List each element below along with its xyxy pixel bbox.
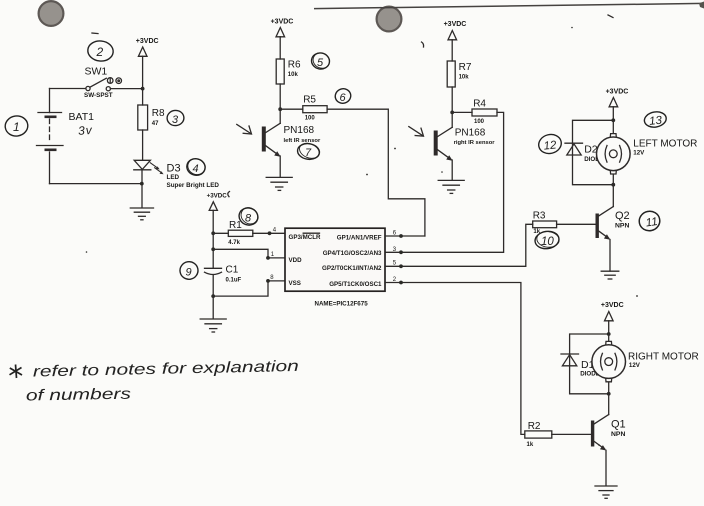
svg-text:+3VDC: +3VDC [207,193,228,200]
wire LED to ground node [140,170,144,208]
svg-text:11: 11 [645,216,659,230]
wire R5 to PIC pin 6 [327,109,425,236]
phototransistor PN168 right [434,127,496,160]
+3VDC power symbol (right motor rail) [601,302,624,334]
phototransistor PN168 left [262,123,321,156]
svg-text:2: 2 [96,45,104,59]
ground under right sensor [438,180,464,193]
svg-text:4.7k: 4.7k [228,240,240,246]
wire C1 to ground [212,275,214,319]
wire battery bottom to LED node [50,183,142,185]
wire right motor / D1 loop [570,332,611,396]
svg-text:R4: R4 [473,98,486,109]
svg-text:R2: R2 [528,421,541,432]
svg-text:NPN: NPN [615,222,629,229]
svg-text:1: 1 [13,120,20,134]
svg-text:Q1: Q1 [611,419,626,431]
svg-text:SW-SPST: SW-SPST [84,92,113,99]
svg-text:R7: R7 [459,62,472,73]
svg-text:R3: R3 [533,211,546,222]
svg-text:+3VDC: +3VDC [444,21,467,28]
+3VDC power symbol (PIC rail) [207,193,228,268]
svg-text:3 v: 3 v [78,123,94,138]
svg-text:PN168: PN168 [284,125,315,136]
resistor R1 [213,220,253,246]
wire right emitter to ground [451,160,453,180]
svg-text:3: 3 [393,246,397,253]
circled number 5 [310,50,332,71]
svg-text:0.1uF: 0.1uF [226,278,242,284]
hole punch mark center [377,7,402,32]
svg-text:GP5/T1CK0/OSC1: GP5/T1CK0/OSC1 [329,281,382,288]
svg-text:PN168: PN168 [455,128,486,139]
svg-text:5: 5 [317,57,324,69]
pin 3 stub [393,246,403,254]
+3VDC power symbol (R8 rail) [136,38,159,105]
svg-text:10k: 10k [459,75,470,81]
IC U1 PIC12F675 [285,228,385,308]
capacitor C1 [205,264,242,283]
svg-text:C1: C1 [226,264,239,275]
svg-text:7: 7 [305,147,312,159]
circled number 10 [534,230,560,250]
handwritten asterisk [10,365,23,379]
svg-text:VSS: VSS [289,280,301,287]
handwritten note line 1 [33,358,299,381]
svg-text:D2: D2 [584,144,598,156]
svg-text:refer to notes for explanation: refer to notes for explanation [33,358,299,381]
svg-text:4: 4 [193,163,199,175]
light arrow into left sensor [237,124,252,134]
svg-text:12: 12 [543,139,558,152]
circled number 6 [334,87,353,105]
LED D3 [134,160,220,189]
svg-text:GP1/AN1/VREF: GP1/AN1/VREF [337,235,382,242]
circled number 13 [643,110,667,129]
wire R1 to pin 4 [253,228,285,236]
svg-text:BAT1: BAT1 [69,111,95,123]
svg-text:GP2/T0CK1/INT/AN2: GP2/T0CK1/INT/AN2 [322,265,382,272]
svg-text:left IR sensor: left IR sensor [284,138,321,144]
wire VDD pin 1 [213,249,285,259]
wire VSS pin 8 to rail [211,275,285,298]
wire R7 to node and collector [450,87,454,127]
wire left emitter to ground [279,156,281,177]
svg-text:RIGHT MOTOR: RIGHT MOTOR [628,351,699,362]
svg-text:+3VDC: +3VDC [136,38,159,45]
svg-text:10k: 10k [288,72,299,78]
switch SW1 [84,66,121,100]
svg-text:+3VDC: +3VDC [601,302,624,309]
svg-text:13: 13 [649,115,664,128]
resistor R8 [138,105,165,130]
wire switch to +3VDC rail [110,87,144,91]
wire R4 to PIC pin 3 [385,112,504,252]
resistor R6 [276,59,301,84]
svg-text:VDD: VDD [289,257,303,264]
stray pen marks [86,15,638,446]
svg-text:R8: R8 [152,108,165,119]
ground under D3 [130,208,153,220]
handwritten value 3v [78,123,94,138]
+3VDC power symbol (left motor rail) [606,89,629,121]
svg-text:+3VDC: +3VDC [606,89,629,96]
wire motor to Q2 collector [612,185,614,207]
circled number 11 [637,209,661,232]
svg-text:12V: 12V [633,150,645,157]
pin 6 stub [385,230,425,238]
svg-text:D3: D3 [167,163,181,175]
svg-text:LEFT MOTOR: LEFT MOTOR [633,139,697,150]
svg-text:100: 100 [305,116,316,122]
svg-text:3: 3 [172,114,179,126]
light arrow into right sensor [409,127,424,137]
wire battery top to switch [50,88,86,90]
+3VDC power symbol (left sensor rail) [271,19,294,60]
circled number 9 [179,260,200,280]
page edge line top right [314,2,704,9]
svg-text:of numbers: of numbers [26,386,132,405]
ground under Q1 [595,486,617,498]
svg-text:right IR sensor: right IR sensor [454,140,496,146]
circled number 12 [537,132,564,156]
resistor R4 [452,98,497,125]
transistor Q2 [596,207,630,272]
circled number 8 [237,204,261,227]
svg-text:6: 6 [340,92,347,104]
circled number 1 [4,115,29,138]
svg-text:Super Bright LED: Super Bright LED [167,182,220,189]
svg-text:SW1: SW1 [85,66,108,78]
svg-text:GP4/T1G/OSC2/AN3: GP4/T1G/OSC2/AN3 [323,250,382,257]
transistor Q1 [591,415,626,486]
circled number 2 [87,40,114,63]
svg-text:+3VDC: +3VDC [271,19,294,26]
resistor R3 [533,211,596,236]
svg-text:9: 9 [186,267,192,279]
resistor R2 [525,421,591,448]
hole punch mark left [39,1,64,26]
diode D1 [561,354,600,378]
svg-text:12V: 12V [629,362,641,369]
circled number 7 [297,140,322,161]
svg-text:Q2: Q2 [615,210,630,222]
svg-text:8: 8 [270,275,274,281]
svg-text:10: 10 [541,236,554,248]
ground under Q2 [601,271,619,279]
svg-text:LED: LED [167,174,180,181]
resistor R5 [280,94,327,121]
circled number 4 [185,156,207,177]
wire left motor / D2 loop [573,118,616,186]
svg-text:1k: 1k [527,442,534,448]
svg-text:NPN: NPN [611,431,625,438]
wire R6 to node and collector [278,84,282,123]
ground under C1 [200,319,226,332]
motor M2 LEFT MOTOR [597,120,698,184]
resistor R7 [447,61,472,87]
svg-text:R5: R5 [303,94,316,105]
svg-text:1: 1 [271,252,275,258]
pin 2 stub and wire to R2 [385,277,525,435]
+3VDC power symbol (right sensor rail) [444,21,467,61]
motor M1 RIGHT MOTOR [592,334,699,394]
pin 5 stub and wire to R3 [385,224,533,268]
svg-text:8: 8 [245,212,252,224]
battery BAT1 [37,89,95,184]
svg-text:R6: R6 [288,60,301,71]
diode D2 [565,143,604,163]
wire motor to Q1 collector [608,394,610,415]
handwritten note line 2 [26,386,132,405]
svg-text:R1: R1 [229,220,242,231]
svg-text:NAME=PIC12F675: NAME=PIC12F675 [315,301,369,308]
svg-text:100: 100 [474,119,485,125]
svg-text:GP3/MCLR: GP3/MCLR [289,234,322,241]
wire R8 to LED [142,130,144,160]
ground under left sensor [266,177,292,190]
svg-text:47: 47 [152,121,159,127]
circled number 3 [166,110,184,127]
